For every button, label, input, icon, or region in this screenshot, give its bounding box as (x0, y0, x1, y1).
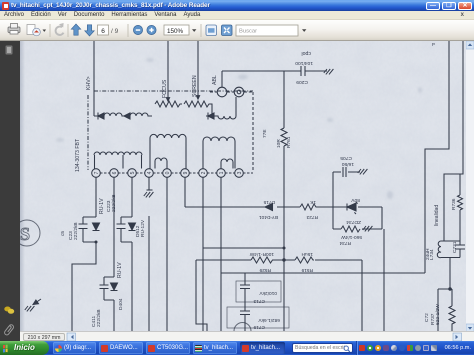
svg-text:C705: C705 (340, 155, 352, 161)
svg-text:80V: 80V (351, 197, 360, 203)
svg-text:16/50: 16/50 (341, 161, 354, 167)
svg-text:5: 5 (130, 171, 136, 174)
svg-text:C23: C23 (68, 231, 74, 240)
svg-text:C719: C719 (253, 324, 265, 330)
svg-text:RU-12V: RU-12V (140, 219, 146, 237)
svg-text:D715: D715 (263, 199, 275, 205)
svg-text:134-3073 FBT: 134-3073 FBT (75, 138, 81, 172)
svg-text:104/100: 104/100 (295, 60, 313, 66)
svg-text:2: 2 (201, 171, 207, 174)
svg-text:SCREEN: SCREEN (192, 75, 198, 97)
svg-text:R736: R736 (451, 198, 457, 210)
svg-text:R734: R734 (339, 240, 351, 246)
svg-text:C223: C223 (106, 200, 112, 212)
svg-text:C72: C72 (424, 313, 430, 322)
svg-text:ABL: ABL (212, 75, 218, 85)
svg-text:0: 0 (165, 171, 171, 174)
svg-text:682/1.6kV: 682/1.6kV (258, 317, 280, 323)
svg-text:C411: C411 (91, 316, 97, 327)
svg-text:C209: C209 (296, 79, 308, 85)
svg-text:ZD734: ZD734 (346, 219, 361, 225)
svg-text:R723: R723 (306, 214, 318, 220)
svg-text:24uH: 24uH (425, 248, 431, 260)
svg-text:9: 9 (183, 171, 189, 174)
svg-text:1: 1 (219, 171, 225, 174)
svg-text:7: 7 (94, 171, 100, 174)
svg-text:R519: R519 (301, 267, 313, 273)
svg-text:10R: 10R (276, 139, 282, 148)
svg-text:RU-1V: RU-1V (99, 198, 105, 214)
svg-text:C713: C713 (253, 298, 265, 304)
svg-text:150%: 150% (167, 28, 184, 35)
svg-text:D404: D404 (118, 298, 124, 310)
svg-text:S: S (20, 224, 30, 244)
svg-text:6: 6 (101, 28, 105, 35)
svg-text:560-1/4W: 560-1/4W (341, 234, 362, 240)
svg-text:c5: c5 (60, 231, 66, 236)
svg-text:100R-1/4W: 100R-1/4W (249, 251, 274, 257)
svg-text:cpol: cpol (301, 50, 311, 56)
svg-text:R761: R761 (286, 136, 292, 148)
svg-text:3: 3 (237, 171, 243, 174)
svg-text:010/2kV: 010/2kV (259, 290, 277, 296)
svg-text:1K: 1K (309, 199, 316, 205)
svg-text:R737: R737 (430, 313, 436, 325)
svg-text:C731: C731 (452, 241, 458, 253)
svg-text:linealidad: linealidad (434, 205, 440, 226)
svg-text:P: P (432, 42, 435, 47)
svg-text:77E: 77E (262, 129, 268, 138)
svg-text:Buscar: Buscar (239, 29, 257, 35)
svg-text:/ 9: / 9 (111, 28, 119, 35)
svg-text:KHV>: KHV> (86, 76, 92, 90)
svg-text:BY-D401: BY-D401 (259, 214, 278, 220)
svg-text:4: 4 (147, 171, 153, 174)
svg-text:6: 6 (112, 171, 118, 174)
svg-text:15uH: 15uH (301, 251, 313, 257)
svg-text:R529: R529 (259, 267, 271, 273)
svg-text:RU-1V: RU-1V (117, 262, 123, 278)
svg-text:FOCUS: FOCUS (162, 79, 168, 98)
